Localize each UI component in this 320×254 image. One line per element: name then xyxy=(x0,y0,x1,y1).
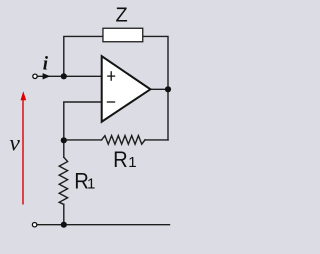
wire: Z right side down to output node xyxy=(143,36,168,139)
impedance Z box xyxy=(103,28,143,42)
voltage arrow v (red) xyxy=(22,97,24,205)
op-amp U1 xyxy=(102,56,151,122)
wire: node A up to Z branch xyxy=(64,36,103,76)
wire: bottom rail xyxy=(37,224,169,226)
bottom node junction dot xyxy=(61,222,67,228)
node C junction dot xyxy=(61,137,67,143)
op-amp - input marker xyxy=(107,101,115,103)
input terminal (bottom port) xyxy=(32,223,36,227)
resistor R1 (horizontal zigzag) xyxy=(102,136,145,145)
input terminal (top port) xyxy=(33,74,37,78)
wire: horizontal resistor to right branch xyxy=(145,139,168,141)
svg-text:1: 1 xyxy=(128,154,136,171)
svg-text:i: i xyxy=(43,53,49,74)
svg-text:v: v xyxy=(9,131,20,157)
wire: node C to horizontal resistor xyxy=(64,139,102,141)
node A junction dot xyxy=(61,73,67,79)
wire: node C down to vertical resistor xyxy=(63,140,65,157)
wire: op-amp output to node B xyxy=(151,88,169,90)
resistor R1 (vertical zigzag) xyxy=(59,157,67,204)
current arrow on input wire xyxy=(43,73,51,79)
svg-text:1: 1 xyxy=(87,176,95,193)
wire: op-amp - input to node C xyxy=(64,102,102,140)
wire: vertical resistor to bottom node xyxy=(63,204,65,224)
op-amp + input marker xyxy=(107,71,115,81)
node B junction dot (op-amp output) xyxy=(165,86,171,92)
wire: input terminal to node A xyxy=(37,75,63,77)
svg-text:R: R xyxy=(113,148,128,172)
wire: node A to op-amp + input xyxy=(64,75,102,77)
svg-text:Z: Z xyxy=(116,5,128,27)
